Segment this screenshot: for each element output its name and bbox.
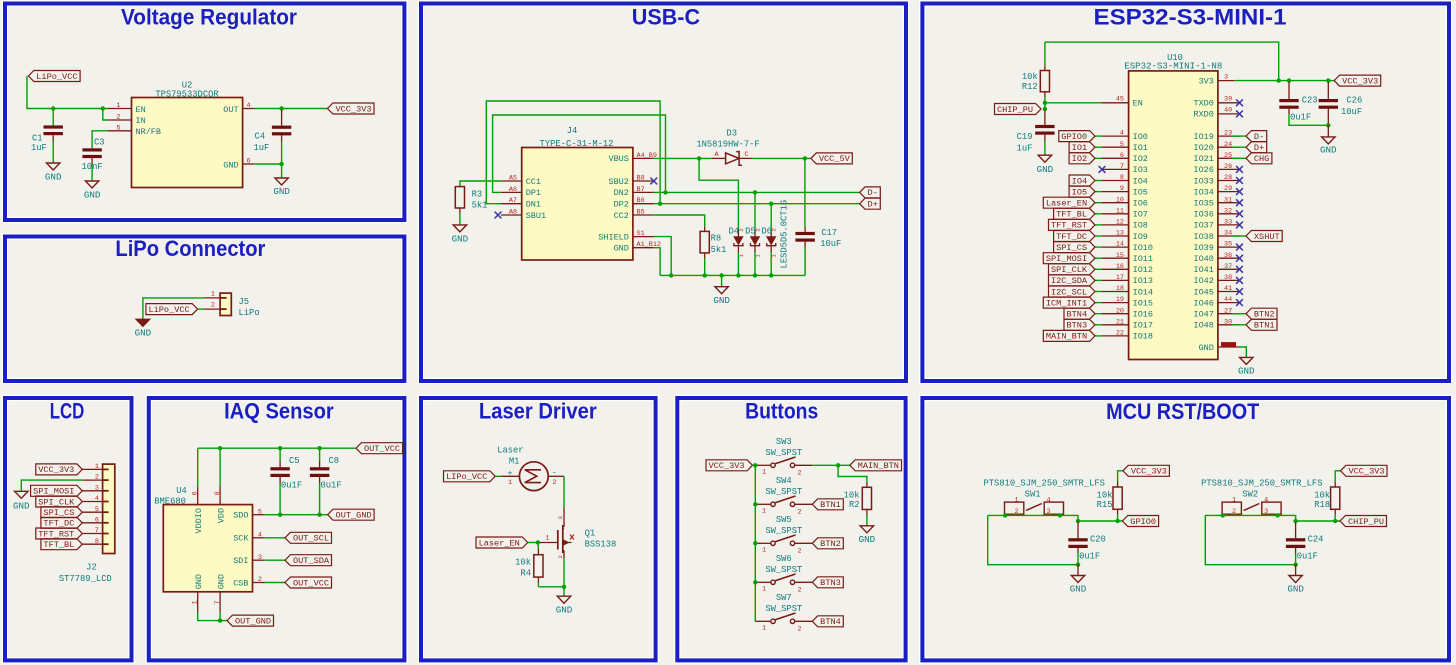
svg-text:XSHUT: XSHUT <box>1254 232 1280 242</box>
junction rail/D5 <box>753 273 757 277</box>
wire SHIELD to ground rail <box>654 237 671 276</box>
svg-text:D5: D5 <box>745 226 756 236</box>
pin 41 IO45 <box>1193 285 1239 297</box>
svg-text:BME680: BME680 <box>154 496 186 506</box>
svg-text:U4: U4 <box>176 486 187 496</box>
global label D- <box>1246 131 1267 142</box>
global label CHIP_PU <box>1340 516 1387 527</box>
svg-text:IO42: IO42 <box>1193 276 1213 286</box>
svg-text:OUT: OUT <box>223 105 238 115</box>
svg-text:C17: C17 <box>821 228 837 238</box>
top rail (IAQ) <box>198 447 356 449</box>
svg-text:GND: GND <box>1287 584 1304 595</box>
wire D+ <box>1232 146 1246 148</box>
global label D- (USB) <box>860 187 881 198</box>
U4 right pins SDO/SCK/SDI/CSB <box>233 508 265 588</box>
junction SW3/R2 <box>836 463 840 467</box>
connector J2 ST7789_LCD body <box>59 464 115 584</box>
svg-text:CC2: CC2 <box>614 211 629 221</box>
svg-text:B7: B7 <box>637 186 645 194</box>
global label TFT_BL <box>1054 208 1095 219</box>
capacitor C17 10uF <box>795 158 841 275</box>
wire output row <box>1078 520 1122 522</box>
svg-text:2: 2 <box>797 586 801 594</box>
svg-text:VDD: VDD <box>217 508 227 523</box>
svg-text:GND: GND <box>556 605 573 616</box>
svg-text:D-: D- <box>868 188 878 198</box>
svg-text:NR/FB: NR/FB <box>136 127 162 137</box>
svg-text:SDI: SDI <box>233 556 248 566</box>
svg-text:10k: 10k <box>515 557 531 567</box>
global label BTN3 <box>1064 319 1095 330</box>
global label OUT_GND (SDO) <box>328 509 375 520</box>
svg-text:6: 6 <box>95 516 99 524</box>
ground below C1 <box>45 163 62 183</box>
svg-text:SPI_MOSI: SPI_MOSI <box>33 487 74 497</box>
junction output/cap <box>1076 519 1080 523</box>
wire left loop <box>1205 515 1295 564</box>
svg-text:4: 4 <box>1047 496 1051 504</box>
svg-text:ESP32-S3-MINI-1: ESP32-S3-MINI-1 <box>1094 5 1287 30</box>
title: Voltage Regulator <box>121 5 297 30</box>
global label SPI_CS (LCD) <box>41 507 82 518</box>
svg-text:LIPo_VCC: LIPo_VCC <box>446 472 487 482</box>
svg-text:IO36: IO36 <box>1193 210 1213 220</box>
svg-text:SW2: SW2 <box>1242 490 1258 500</box>
no-connect X IO35 <box>1236 199 1243 206</box>
svg-text:R8: R8 <box>711 234 722 244</box>
svg-text:0u1F: 0u1F <box>1297 552 1318 562</box>
svg-text:ICM_INT1: ICM_INT1 <box>1046 298 1087 308</box>
wire IN branch <box>103 109 108 121</box>
svg-text:4: 4 <box>258 531 262 539</box>
svg-text:10k: 10k <box>1314 491 1330 501</box>
wire ground stem (USB) <box>721 275 723 286</box>
junction rail/C5 <box>278 446 282 450</box>
pin 7 IO3 <box>1102 163 1148 175</box>
ground (SW2) <box>1287 576 1304 595</box>
svg-text:18: 18 <box>1116 285 1124 293</box>
svg-text:ESP32-S3-MINI-1-N8: ESP32-S3-MINI-1-N8 <box>1124 61 1222 71</box>
svg-text:39: 39 <box>1224 96 1232 104</box>
ground below C19 <box>1037 155 1054 175</box>
pin 19 IO15 <box>1102 296 1153 308</box>
svg-text:IO10: IO10 <box>1133 243 1153 253</box>
svg-text:BTN2: BTN2 <box>820 539 841 549</box>
junction output/cap <box>1293 519 1297 523</box>
wire VDD to rail <box>219 448 221 486</box>
svg-text:0u1F: 0u1F <box>1290 113 1311 123</box>
svg-text:GPIO0: GPIO0 <box>1130 517 1156 527</box>
pin 21 IO17 <box>1102 318 1153 330</box>
pin 12 IO8 <box>1102 219 1148 231</box>
junction 3V3/C26 <box>1326 78 1330 82</box>
svg-text:45: 45 <box>1116 96 1124 104</box>
svg-text:12: 12 <box>1116 219 1124 227</box>
title: Laser Driver <box>479 399 597 424</box>
wire M1 to Q1 drain <box>563 476 565 507</box>
svg-text:LESD5D5.0CT1G: LESD5D5.0CT1G <box>780 200 790 269</box>
svg-text:31: 31 <box>1224 196 1232 204</box>
wire CSB <box>265 582 285 584</box>
global label I2C_SDA <box>1049 275 1096 286</box>
svg-text:I2C_SCL: I2C_SCL <box>1051 287 1087 297</box>
svg-text:SW4: SW4 <box>776 476 792 486</box>
svg-text:BTN1: BTN1 <box>1254 321 1275 331</box>
wire ground stem (Laser) <box>563 587 565 596</box>
pin 45 EN <box>1102 96 1143 109</box>
svg-text:GND: GND <box>135 328 152 339</box>
svg-text:GND: GND <box>45 172 62 183</box>
junction output/R15 <box>1115 519 1119 523</box>
svg-text:10uF: 10uF <box>1341 107 1362 117</box>
ground (SW1) <box>1070 576 1087 595</box>
global label TFT_BL (LCD) <box>41 539 82 550</box>
svg-text:GND: GND <box>217 574 227 589</box>
svg-text:CHIP_PU: CHIP_PU <box>1348 517 1384 527</box>
svg-text:IO14: IO14 <box>1133 287 1153 297</box>
svg-text:IO18: IO18 <box>1133 332 1153 342</box>
svg-text:I2C_SDA: I2C_SDA <box>1051 276 1088 286</box>
wire SCK <box>265 537 285 539</box>
svg-text:C5: C5 <box>289 456 300 466</box>
sensor U4 BME680 body <box>154 486 252 592</box>
svg-text:B8: B8 <box>637 175 645 183</box>
svg-text:10: 10 <box>1116 196 1124 204</box>
svg-text:GPIO0: GPIO0 <box>1061 132 1087 142</box>
svg-text:7: 7 <box>214 600 222 604</box>
wire Laser_EN <box>1095 202 1102 204</box>
section box: LiPo Connector <box>5 237 404 382</box>
global label BTN4 <box>1064 308 1095 319</box>
svg-text:36: 36 <box>1224 252 1232 260</box>
wire LiPo_VCC to J5 pin2 <box>198 308 205 310</box>
global label SPI_MOSI <box>1043 253 1095 264</box>
svg-text:SW1: SW1 <box>1025 490 1041 500</box>
pin 27 IO47 <box>1193 307 1239 319</box>
no-connect X IO36 <box>1236 210 1243 217</box>
wire to VCC_3V3 <box>1118 471 1123 482</box>
svg-text:23: 23 <box>1224 130 1232 138</box>
svg-text:VCC_3V3: VCC_3V3 <box>1342 76 1378 86</box>
svg-text:2: 2 <box>797 625 801 633</box>
svg-text:R18: R18 <box>1314 500 1330 510</box>
svg-text:5: 5 <box>1120 141 1124 149</box>
svg-text:3V3: 3V3 <box>1199 76 1214 86</box>
ground below R2 <box>859 526 876 545</box>
svg-text:TYPE-C-31-M-12: TYPE-C-31-M-12 <box>540 139 614 149</box>
pin 10 IO6 <box>1102 196 1148 208</box>
svg-text:4: 4 <box>247 102 251 110</box>
capacitor C8 0u1F <box>310 448 342 515</box>
resistor R15 10k <box>1097 482 1123 522</box>
svg-text:C26: C26 <box>1346 96 1362 106</box>
wire jog to output row <box>1278 515 1296 521</box>
svg-text:CC1: CC1 <box>526 177 541 187</box>
no-connect X IO42 <box>1236 277 1243 284</box>
switch SW2 PTS810 <box>1222 490 1281 516</box>
svg-text:LiPo: LiPo <box>239 308 260 318</box>
svg-text:C19: C19 <box>1017 132 1033 142</box>
svg-text:28: 28 <box>1224 174 1232 182</box>
svg-text:2: 2 <box>95 474 99 482</box>
wire CHG <box>1232 157 1246 159</box>
pin 24 IO20 <box>1193 141 1239 153</box>
wire IO4 <box>1095 180 1102 182</box>
wire I2C_SDA <box>1095 279 1102 281</box>
global label LiPo_VCC (VR) <box>28 71 80 82</box>
svg-text:D6: D6 <box>761 226 772 236</box>
junction at U2 GND <box>279 162 283 166</box>
wire ICM_INT1 <box>1095 302 1102 304</box>
svg-text:OUT_GND: OUT_GND <box>235 616 271 626</box>
svg-text:17: 17 <box>1116 274 1124 282</box>
svg-text:6: 6 <box>1120 152 1124 160</box>
global label BTN2 <box>1246 308 1277 319</box>
global label IO4 <box>1069 175 1095 186</box>
svg-text:SPI_CLK: SPI_CLK <box>1051 265 1088 275</box>
svg-text:GND: GND <box>1320 144 1337 155</box>
svg-text:IO0: IO0 <box>1133 132 1148 142</box>
svg-text:VCC_3V3: VCC_3V3 <box>1348 467 1384 477</box>
svg-text:BSS138: BSS138 <box>585 540 617 550</box>
svg-text:IO48: IO48 <box>1193 321 1213 331</box>
svg-text:10k: 10k <box>1097 491 1113 501</box>
svg-text:8: 8 <box>1120 174 1124 182</box>
svg-text:C24: C24 <box>1308 535 1324 545</box>
svg-text:A8: A8 <box>509 209 517 217</box>
svg-text:Laser: Laser <box>497 446 523 456</box>
wire to VCC_3V3 <box>1335 471 1340 482</box>
no-connect X IO45 <box>1236 288 1243 295</box>
svg-text:8: 8 <box>95 538 99 546</box>
svg-text:1uF: 1uF <box>1017 143 1033 153</box>
svg-text:SW5: SW5 <box>776 515 792 525</box>
svg-text:IO16: IO16 <box>1133 310 1153 320</box>
wire VBUS to D3 <box>654 157 712 159</box>
svg-text:GND: GND <box>1199 343 1214 353</box>
junction VCC rail <box>753 541 757 545</box>
svg-text:A6: A6 <box>509 186 517 194</box>
svg-text:4: 4 <box>95 495 99 503</box>
pin 7 GND (U4) <box>214 574 227 612</box>
svg-text:R12: R12 <box>1022 82 1038 92</box>
global label IO5 <box>1069 186 1095 197</box>
svg-text:VCC_3V3: VCC_3V3 <box>38 465 74 475</box>
svg-text:CHG: CHG <box>1254 154 1269 164</box>
svg-text:GND: GND <box>1037 164 1054 175</box>
svg-text:16: 16 <box>1116 263 1124 271</box>
svg-text:TPS79533DCQR: TPS79533DCQR <box>155 90 219 100</box>
wire to ground (C23/C26) <box>1327 125 1329 137</box>
svg-text:32: 32 <box>1224 207 1232 215</box>
junction gate/R4 <box>536 540 540 544</box>
wire SPI_MOSI <box>1095 257 1102 259</box>
global label OUT_VCC (CSB) <box>285 577 332 588</box>
global label BTN1 (Buttons) <box>812 499 843 510</box>
svg-text:SW_SPST: SW_SPST <box>765 604 802 614</box>
svg-text:OUT_SDA: OUT_SDA <box>293 556 330 566</box>
junction EN <box>1043 101 1047 105</box>
svg-text:1: 1 <box>95 463 99 471</box>
svg-text:2: 2 <box>557 555 564 558</box>
global label LiPo_VCC (J5) <box>146 304 198 315</box>
svg-text:38: 38 <box>1224 274 1232 282</box>
section box: USB-C <box>421 4 906 382</box>
laser emitter M1 <box>501 462 564 491</box>
wire D3 to VCC_5V <box>753 157 811 159</box>
wire ground stem <box>1077 565 1079 576</box>
svg-text:IO6: IO6 <box>1133 199 1148 209</box>
junction pad2 <box>1221 513 1225 517</box>
svg-text:C3: C3 <box>94 138 105 148</box>
svg-text:SHIELD: SHIELD <box>598 232 629 242</box>
svg-text:SPI_CS: SPI_CS <box>43 508 74 518</box>
wire 3V3 to VCC_3V3 <box>1234 80 1334 82</box>
svg-text:13: 13 <box>1116 230 1124 238</box>
title: MCU RST/BOOT <box>1106 399 1260 424</box>
global label Laser_EN (driver) <box>476 537 528 548</box>
svg-text:2: 2 <box>552 479 556 487</box>
svg-text:1: 1 <box>1014 496 1018 504</box>
svg-text:SW_SPST: SW_SPST <box>765 565 802 575</box>
pin 16 IO12 <box>1102 263 1153 275</box>
svg-text:1: 1 <box>545 534 549 542</box>
junction pad2 <box>1003 513 1007 517</box>
wire TFT_BL <box>1095 213 1102 215</box>
svg-text:D+: D+ <box>1254 143 1264 153</box>
global label VCC_3V3 (ESP32) <box>1334 75 1381 86</box>
ground (USB rail) <box>713 287 730 306</box>
svg-text:A5: A5 <box>509 175 517 183</box>
section box: Voltage Regulator <box>5 4 404 221</box>
svg-text:30: 30 <box>1224 318 1232 326</box>
pin 6 IO2 <box>1102 152 1148 164</box>
pin 33 IO37 <box>1193 219 1239 231</box>
svg-text:C23: C23 <box>1302 96 1318 106</box>
wire IO2 <box>1095 157 1102 159</box>
wire DN2 to D- <box>654 191 860 193</box>
svg-text:TFT_BL: TFT_BL <box>1056 210 1087 220</box>
wire Laser_EN to gate <box>528 542 538 544</box>
svg-text:IO8: IO8 <box>1133 221 1148 231</box>
global label CHG <box>1246 153 1272 164</box>
capacitor C24 0u1F <box>1286 522 1324 565</box>
global label OUT_GND (bottom) <box>227 615 274 626</box>
svg-text:IO4: IO4 <box>1133 176 1148 186</box>
svg-text:SBU1: SBU1 <box>526 211 546 221</box>
pin 36 IO40 <box>1193 252 1239 264</box>
svg-text:0u1F: 0u1F <box>321 480 342 490</box>
svg-text:IO4: IO4 <box>1072 176 1087 186</box>
junction 3V3/top rail <box>1277 78 1281 82</box>
svg-text:IO12: IO12 <box>1133 265 1153 275</box>
svg-text:SPI_CS: SPI_CS <box>1056 243 1087 253</box>
no-connect X TXD0 <box>1236 99 1243 106</box>
junction 3V3/C23 <box>1287 78 1291 82</box>
wire SPI_CLK <box>1095 268 1102 270</box>
svg-text:33: 33 <box>1224 219 1232 227</box>
svg-text:B5: B5 <box>637 209 645 217</box>
ground below C3 <box>84 181 101 201</box>
pin 44 IO46 <box>1193 296 1239 308</box>
J2 pins 1-8 <box>82 463 108 546</box>
top rail wire (ESP32) <box>1045 42 1279 81</box>
svg-text:1: 1 <box>762 546 766 554</box>
resistor R8 5k1 <box>700 226 726 275</box>
svg-text:M1: M1 <box>509 457 520 467</box>
svg-text:26: 26 <box>1224 163 1232 171</box>
pin 11 IO7 <box>1102 207 1148 219</box>
switch SW1 PTS810 <box>1005 490 1064 516</box>
junction at VBUS branch <box>697 156 701 160</box>
wire VDDIO to rail <box>197 448 199 486</box>
svg-text:44: 44 <box>1224 296 1232 304</box>
global label SPI_CS <box>1054 242 1095 253</box>
svg-text:IO40: IO40 <box>1193 254 1213 264</box>
svg-text:DP2: DP2 <box>614 200 629 210</box>
resistor R2 10k <box>838 465 871 526</box>
wire SW3 to MAIN_BTN <box>812 464 850 466</box>
svg-text:SPI_MOSI: SPI_MOSI <box>1046 254 1087 264</box>
wire output row <box>1296 520 1340 522</box>
svg-text:GND: GND <box>1238 365 1255 376</box>
svg-text:SW7: SW7 <box>776 593 792 603</box>
junction pad3 <box>1058 513 1062 517</box>
svg-text:IO5: IO5 <box>1072 187 1087 197</box>
wire IO5 <box>1095 191 1102 193</box>
global label VCC_3V3 (Buttons) <box>706 460 753 471</box>
pin 23 IO19 <box>1193 130 1239 142</box>
svg-text:S1: S1 <box>637 230 645 238</box>
junction DN2/loop <box>663 190 667 194</box>
junction DN2/D5 <box>753 190 757 194</box>
svg-text:IO2: IO2 <box>1072 154 1087 164</box>
pin 38 IO42 <box>1193 274 1239 286</box>
svg-text:4: 4 <box>1120 130 1124 138</box>
svg-text:Buttons: Buttons <box>745 399 818 424</box>
svg-text:TFT_RST: TFT_RST <box>1051 221 1087 231</box>
svg-text:IO41: IO41 <box>1193 265 1213 275</box>
svg-text:3: 3 <box>258 554 262 562</box>
svg-text:DN2: DN2 <box>614 188 629 198</box>
junction rail/VDD <box>218 446 222 450</box>
laser module M1 labels <box>497 446 523 467</box>
svg-text:RXD0: RXD0 <box>1193 110 1213 120</box>
junction CHIP_PU/C19 <box>1043 107 1047 111</box>
wire EN <box>1045 102 1102 104</box>
svg-text:IN: IN <box>136 116 146 126</box>
svg-text:IO26: IO26 <box>1193 165 1213 175</box>
global label OUT_VCC (top) <box>356 443 403 454</box>
section box: MCU RST/BOOT <box>922 398 1449 660</box>
wire SPI_CS <box>1095 246 1102 248</box>
ground at J5 (filled) <box>135 319 152 338</box>
svg-text:GND: GND <box>614 244 629 254</box>
svg-text:EN: EN <box>1133 99 1143 109</box>
wire source to rail <box>563 558 565 587</box>
svg-text:EN: EN <box>136 105 146 115</box>
pin 3 3V3 <box>1199 73 1235 86</box>
wire J5 pin1 to ground <box>143 298 204 319</box>
svg-text:IO34: IO34 <box>1193 187 1213 197</box>
svg-text:IO21: IO21 <box>1193 154 1213 164</box>
wire SDO to OUT_GND <box>265 514 328 516</box>
wire BTN2 <box>1232 313 1246 315</box>
svg-text:29: 29 <box>1224 185 1232 193</box>
junction C23/C26 bottom <box>1326 123 1330 127</box>
wire TFT_DC <box>1095 235 1102 237</box>
